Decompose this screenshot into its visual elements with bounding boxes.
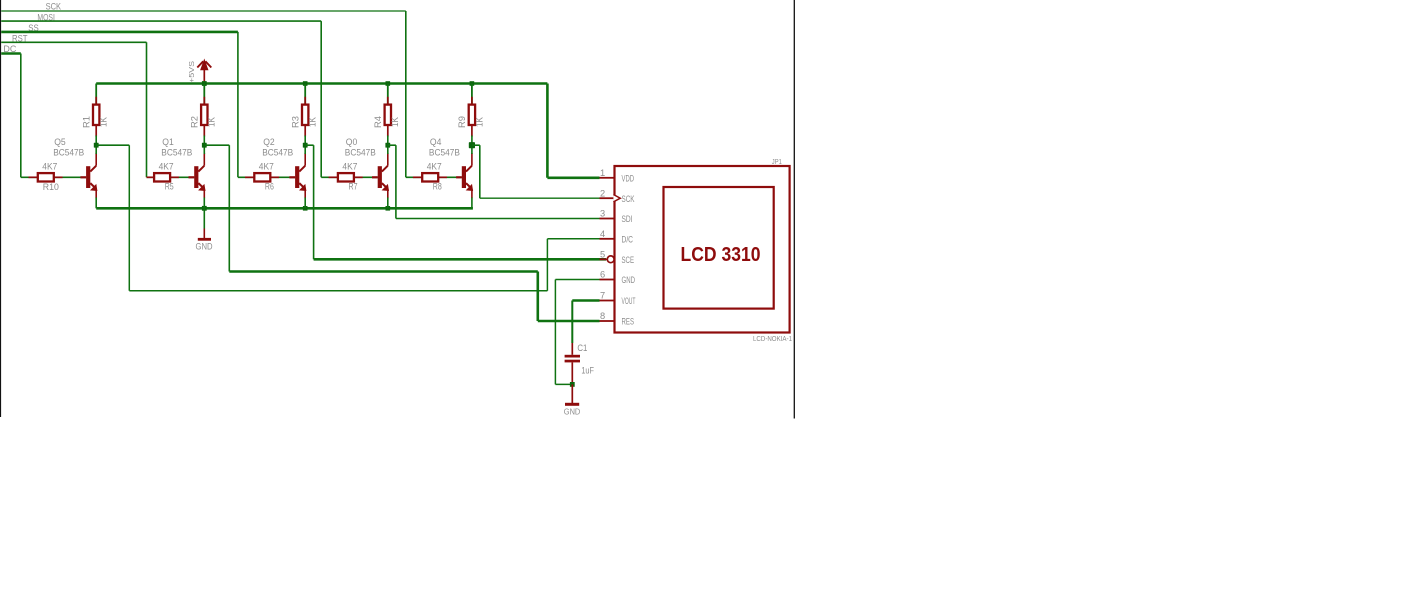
svg-text:7: 7 bbox=[600, 291, 605, 301]
svg-text:SCK: SCK bbox=[622, 194, 635, 204]
wire net SCK vertical drop bbox=[405, 11, 407, 177]
transistor Q1 BC547B stage2 bbox=[194, 166, 198, 188]
svg-text:RES: RES bbox=[622, 317, 635, 327]
svg-text:4K7: 4K7 bbox=[427, 161, 442, 171]
resistor R10 4K7 (base, stage1) bbox=[29, 176, 38, 178]
svg-text:SCE: SCE bbox=[622, 255, 635, 265]
wire base input stage5 bbox=[406, 176, 422, 178]
wire stage5 output vertical (to SCK) bbox=[479, 145, 481, 198]
wire net RST horizontal bbox=[1, 41, 146, 43]
transistor Q0 BC547B stage4 bbox=[378, 166, 382, 188]
resistor R6 4K7 (base, stage3) bbox=[245, 176, 254, 178]
wire into pin4 D/C bbox=[547, 238, 599, 240]
wire stage2 output vertical (to RES) bbox=[228, 145, 230, 271]
wire resistor bottom to collector junction stage1 bbox=[95, 136, 97, 146]
pin 1 VDD stub bbox=[600, 177, 615, 179]
ground GND symbol below emitter rail bbox=[203, 208, 205, 228]
svg-text:1: 1 bbox=[600, 168, 605, 178]
transistor Q2 BC547B stage3 bbox=[295, 166, 299, 188]
junction collector node stage4 bbox=[385, 143, 390, 148]
wire pin7 VOUT down to capacitor bbox=[571, 301, 573, 344]
junction emitter rail stage4 bbox=[386, 206, 391, 211]
svg-text:6: 6 bbox=[600, 270, 605, 280]
wire stage3 output vertical (to SCE) bbox=[313, 145, 315, 259]
svg-text:R1: R1 bbox=[81, 116, 91, 128]
wire collector output horizontal stage1 bbox=[96, 144, 129, 146]
wire base resistor to transistor stage1 bbox=[54, 176, 86, 178]
wire collector output horizontal stage5 bbox=[472, 144, 480, 146]
svg-text:GND: GND bbox=[196, 241, 213, 251]
pin 2 SCK stub bbox=[600, 197, 615, 199]
resistor R9 1K (collector, stage5) bbox=[471, 84, 473, 105]
svg-text:1K: 1K bbox=[308, 117, 318, 127]
wire stage4 output vertical (to SDI) bbox=[395, 145, 397, 218]
junction collector node stage2 bbox=[202, 143, 207, 148]
pin 6 GND stub bbox=[600, 279, 615, 281]
svg-text:1K: 1K bbox=[207, 117, 217, 127]
wire base resistor to transistor stage4 bbox=[354, 176, 378, 178]
wire stage1 output long horizontal at y290 bbox=[129, 290, 547, 292]
wire pin7 VOUT horizontal bbox=[572, 299, 599, 302]
wire collector output horizontal stage3 bbox=[305, 144, 313, 146]
svg-text:LCD-NOKIA-1: LCD-NOKIA-1 bbox=[753, 336, 792, 343]
pin 5 inversion bubble bbox=[607, 256, 614, 263]
svg-text:4K7: 4K7 bbox=[159, 161, 174, 171]
svg-text:1K: 1K bbox=[474, 117, 484, 127]
svg-text:LCD 3310: LCD 3310 bbox=[681, 243, 761, 266]
resistor R5 4K7 (base, stage2) bbox=[147, 176, 155, 178]
wire collector output horizontal stage4 bbox=[388, 144, 396, 146]
wire base input stage3 bbox=[238, 176, 254, 178]
wire base resistor to transistor stage5 bbox=[438, 176, 462, 178]
svg-text:1uF: 1uF bbox=[581, 366, 594, 376]
wire emitter to rail stage3 bbox=[304, 198, 306, 209]
wire net DC vertical drop bbox=[20, 54, 22, 178]
junction collector node stage5 bbox=[469, 142, 475, 148]
wire collector to junction stage1 bbox=[95, 145, 97, 154]
svg-text:R3: R3 bbox=[290, 116, 300, 128]
wire stage1 output rise to pin4 bbox=[546, 239, 548, 291]
svg-text:Q1: Q1 bbox=[162, 137, 174, 148]
wire resistor bottom to collector junction stage3 bbox=[304, 136, 306, 146]
resistor R1 1K (collector, stage1) bbox=[95, 84, 97, 105]
wire collector to junction stage5 bbox=[471, 145, 473, 154]
wire net SS vertical drop bbox=[237, 32, 239, 177]
wire stage2 output drop to pin8 bbox=[536, 272, 539, 322]
wire resistor bottom to collector junction stage2 bbox=[203, 136, 205, 146]
svg-text:R6: R6 bbox=[265, 181, 274, 191]
svg-text:R5: R5 bbox=[165, 181, 174, 191]
wire pin6 GND vertical bbox=[554, 280, 556, 385]
wire emitter to rail stage4 bbox=[387, 198, 389, 209]
connector JP1 LCD 3310 outer box bbox=[615, 166, 790, 333]
wire stage1 output vertical (to D/C) bbox=[128, 145, 130, 291]
wire emitter to rail stage5 bbox=[471, 198, 473, 209]
svg-text:VOUT: VOUT bbox=[622, 296, 636, 306]
svg-text:BC547B: BC547B bbox=[161, 147, 192, 157]
junction collector node stage1 bbox=[94, 143, 99, 148]
svg-text:R2: R2 bbox=[189, 116, 199, 128]
wire base resistor to transistor stage2 bbox=[170, 176, 194, 178]
svg-text:SDI: SDI bbox=[622, 214, 633, 224]
svg-text:4K7: 4K7 bbox=[259, 161, 274, 171]
wire emitter ground rail bbox=[96, 207, 473, 210]
svg-text:R9: R9 bbox=[457, 116, 467, 128]
svg-text:Q0: Q0 bbox=[346, 137, 358, 148]
svg-text:1K: 1K bbox=[390, 117, 400, 127]
LCD display inner box bbox=[664, 187, 774, 309]
wire VDD drop from +5V rail bbox=[546, 84, 549, 178]
pin 3 SDI stub bbox=[600, 218, 615, 220]
wire resistor bottom to collector junction stage4 bbox=[387, 136, 389, 146]
svg-text:2: 2 bbox=[600, 188, 605, 198]
resistor R4 1K (collector, stage4) bbox=[387, 84, 389, 105]
wire base input stage2 bbox=[147, 176, 155, 178]
pin 5 SCE stub bbox=[600, 258, 607, 260]
resistor R3 1K (collector, stage3) bbox=[304, 84, 306, 105]
svg-text:R8: R8 bbox=[433, 181, 442, 191]
svg-text:GND: GND bbox=[564, 406, 581, 416]
wire resistor bottom to collector junction stage5 bbox=[471, 136, 473, 146]
wire collector to junction stage4 bbox=[387, 145, 389, 154]
supply +5VS symbol bbox=[203, 70, 205, 84]
wire net SS horizontal bbox=[1, 31, 238, 34]
svg-text:BC547B: BC547B bbox=[53, 147, 84, 157]
junction rail/stage3 bbox=[303, 81, 308, 86]
svg-text:C1: C1 bbox=[577, 343, 587, 353]
wire into pin1 VDD bbox=[547, 177, 599, 180]
wire net DC horizontal bbox=[1, 52, 21, 55]
junction capacitor/GND node bbox=[570, 382, 575, 387]
junction rail/stage5 bbox=[470, 81, 475, 86]
wire +5V rail bbox=[96, 82, 547, 85]
resistor R7 4K7 (base, stage4) bbox=[329, 176, 338, 178]
svg-text:+5VS: +5VS bbox=[187, 61, 196, 83]
wire into pin5 SCE bbox=[314, 258, 606, 261]
wire net SCK horizontal bbox=[1, 10, 406, 12]
svg-text:D/C: D/C bbox=[622, 235, 634, 245]
svg-text:BC547B: BC547B bbox=[429, 147, 460, 157]
wire into pin3 SDI bbox=[396, 218, 600, 220]
resistor R8 4K7 (base, stage5) bbox=[413, 176, 422, 178]
svg-text:8: 8 bbox=[600, 311, 605, 321]
svg-text:R10: R10 bbox=[43, 182, 59, 192]
svg-text:VDD: VDD bbox=[622, 174, 635, 184]
svg-text:JP1: JP1 bbox=[772, 157, 782, 166]
junction emitter rail stage3 bbox=[303, 206, 308, 211]
pin 2 clock mark bbox=[613, 195, 620, 202]
svg-text:1K: 1K bbox=[99, 117, 109, 127]
svg-text:GND: GND bbox=[622, 275, 636, 285]
svg-text:Q5: Q5 bbox=[54, 137, 65, 148]
pin 8 RES stub bbox=[600, 320, 615, 322]
svg-text:BC547B: BC547B bbox=[262, 147, 293, 157]
svg-text:4: 4 bbox=[600, 229, 605, 239]
wire base input stage4 bbox=[321, 176, 338, 178]
wire base resistor to transistor stage3 bbox=[270, 176, 295, 178]
junction emitter rail stage2 bbox=[202, 206, 207, 211]
wire base input stage1 bbox=[21, 176, 38, 178]
wire into pin8 RES bbox=[538, 320, 600, 323]
wire pin6 GND horizontal bbox=[555, 279, 599, 281]
wire emitter to rail stage1 bbox=[95, 198, 97, 209]
pin 4 D/C stub bbox=[600, 238, 615, 240]
wire stage2 output long horizontal at y271 bbox=[229, 270, 538, 273]
svg-text:Q4: Q4 bbox=[430, 137, 442, 148]
wire net MOSI vertical drop bbox=[320, 21, 322, 177]
svg-text:R7: R7 bbox=[349, 181, 358, 191]
wire pin6 GND to capacitor node bbox=[555, 383, 572, 385]
svg-text:Q2: Q2 bbox=[263, 137, 275, 148]
svg-text:3: 3 bbox=[600, 209, 605, 219]
svg-text:R4: R4 bbox=[373, 116, 383, 128]
junction collector node stage3 bbox=[303, 143, 308, 148]
junction rail/stage2 bbox=[202, 81, 207, 86]
resistor R2 1K (collector, stage2) bbox=[203, 84, 205, 105]
wire collector output horizontal stage2 bbox=[204, 144, 229, 146]
pin 7 VOUT stub bbox=[600, 300, 615, 302]
wire net MOSI horizontal bbox=[1, 20, 321, 22]
wire collector to junction stage2 bbox=[203, 145, 205, 154]
wire net RST vertical drop bbox=[146, 42, 148, 177]
svg-text:5: 5 bbox=[600, 250, 605, 260]
svg-text:BC547B: BC547B bbox=[345, 147, 376, 157]
transistor Q5 BC547B stage1 bbox=[86, 166, 90, 188]
svg-text:4K7: 4K7 bbox=[42, 161, 57, 171]
wire emitter to rail stage2 bbox=[203, 198, 205, 209]
capacitor C1 1uF bbox=[571, 343, 573, 355]
wire into pin2 SCK bbox=[480, 197, 600, 199]
svg-text:4K7: 4K7 bbox=[342, 161, 357, 171]
wire collector to junction stage3 bbox=[304, 145, 306, 154]
junction rail/stage4 bbox=[386, 81, 391, 86]
ground GND symbol below capacitor bbox=[571, 384, 573, 403]
transistor Q4 BC547B stage5 bbox=[462, 166, 466, 188]
